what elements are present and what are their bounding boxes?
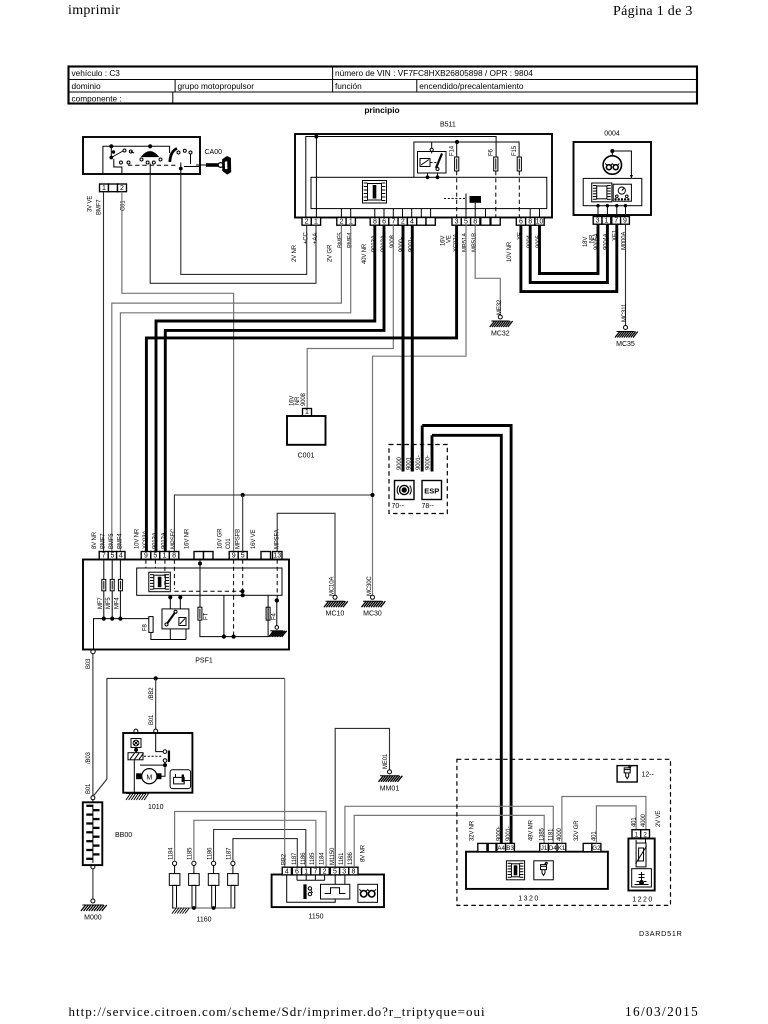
svg-text:1150: 1150	[308, 914, 323, 921]
svg-text:M000: M000	[84, 915, 102, 922]
svg-text:2: 2	[340, 219, 344, 226]
svg-text:1: 1	[305, 409, 309, 416]
svg-text:9000: 9000	[397, 456, 403, 470]
fuse F14	[455, 157, 459, 171]
ground MM01	[379, 770, 403, 792]
0004 pin row	[593, 217, 602, 225]
svg-text:MF5: MF5	[106, 597, 112, 609]
svg-text:Página 1 de 3: Página 1 de 3	[613, 4, 693, 19]
svg-text:1010: 1010	[148, 804, 164, 811]
wire 9000- from B511	[402, 225, 405, 471]
ignition switch CA00 box	[83, 137, 222, 174]
svg-text:FT: FT	[204, 612, 210, 620]
svg-text:5: 5	[464, 219, 468, 226]
wire 9012A	[165, 225, 384, 551]
svg-text:MPSFB: MPSFB	[236, 529, 242, 549]
svg-text:grupo motopropulsor: grupo motopropulsor	[178, 81, 255, 91]
1010 ground wire	[133, 759, 135, 792]
wires pins to MF fuses	[103, 560, 105, 580]
svg-text:MC311: MC311	[622, 303, 628, 322]
svg-text:8: 8	[172, 553, 176, 560]
CA00 internal bus wire	[103, 146, 170, 174]
svg-text:18V: 18V	[583, 237, 589, 247]
svg-text:401: 401	[631, 817, 637, 827]
PSF1 supply bus	[94, 619, 149, 650]
svg-text:9001-: 9001-	[506, 826, 512, 841]
svg-text:M000A: M000A	[621, 232, 627, 250]
svg-text:1187: 1187	[227, 847, 233, 860]
svg-text:9000-: 9000-	[496, 826, 502, 841]
B511 top bus wire	[306, 137, 496, 218]
wire 9005 to 9005A	[540, 225, 599, 274]
B511 pin row	[302, 218, 311, 226]
connector C01 pin row	[100, 184, 109, 192]
wire +CC	[181, 174, 307, 274]
svg-text:D4: D4	[549, 845, 557, 852]
wire 1187	[233, 839, 297, 868]
svg-text:1184: 1184	[168, 847, 174, 860]
svg-text:9000-: 9000-	[426, 455, 432, 470]
pressure switch in B511	[444, 194, 481, 209]
svg-text:32V NR: 32V NR	[470, 820, 476, 841]
svg-text:13: 13	[273, 553, 281, 560]
1010 spare terminal	[134, 729, 138, 733]
wire XE to XE1	[521, 225, 617, 292]
wire +AA	[150, 174, 316, 283]
svg-text:función: función	[335, 81, 362, 91]
svg-text:K1: K1	[558, 845, 566, 852]
ground M000	[81, 899, 107, 922]
dashed wire C01 internal	[233, 560, 235, 637]
1150 pin row	[282, 867, 291, 875]
dashed wire MPSFB internal	[242, 560, 244, 596]
0004 pin stubs	[597, 206, 599, 217]
wire MB51A to MC30	[373, 225, 467, 595]
dashed wire F14 to pin 3	[456, 171, 458, 218]
1320 pin row	[478, 843, 487, 851]
glow plug 1186	[207, 847, 219, 908]
1220 pin row	[632, 830, 641, 838]
ESP icon	[422, 481, 442, 500]
svg-text:G2: G2	[592, 845, 601, 852]
ground MC35	[615, 326, 638, 349]
svg-text:40V NR: 40V NR	[362, 243, 368, 264]
ESP dashed box	[389, 445, 447, 514]
svg-text:1: 1	[314, 219, 318, 226]
svg-text:3V VE: 3V VE	[88, 196, 94, 212]
wire XC03A	[146, 225, 456, 551]
svg-text:B01: B01	[149, 714, 155, 725]
CA00 mechanical link dashed	[128, 164, 176, 166]
wire 9001- to 1320	[422, 426, 511, 844]
svg-text:MC30C: MC30C	[367, 576, 373, 596]
1010 contactor	[144, 750, 170, 763]
thermistor in 1220	[636, 837, 647, 867]
svg-text:8: 8	[351, 868, 355, 875]
dashed wire F15 to pin 6	[518, 171, 520, 218]
svg-text:7: 7	[392, 219, 396, 226]
wire BMF4	[120, 225, 350, 551]
ABS icon	[395, 481, 415, 500]
svg-text:BB2: BB2	[281, 853, 287, 865]
svg-text:32V GR: 32V GR	[574, 820, 580, 841]
B511 relay feed wire	[414, 142, 519, 177]
IC symbol in PSF1	[149, 572, 171, 592]
svg-text:1: 1	[304, 868, 308, 875]
fuse FT	[198, 607, 210, 620]
svg-text:2: 2	[401, 219, 405, 226]
svg-text:BMF7: BMF7	[101, 533, 107, 549]
svg-text:1: 1	[349, 219, 353, 226]
svg-text:F8: F8	[142, 623, 148, 631]
wire 4000	[562, 797, 646, 844]
ground MC10	[324, 595, 348, 617]
svg-text:1186: 1186	[301, 852, 307, 865]
fuse box PSF1	[83, 560, 289, 665]
svg-text:3: 3	[342, 868, 346, 875]
glow plug ground	[172, 908, 212, 924]
svg-text:2V VE: 2V VE	[656, 811, 662, 827]
gauge symbol in 0004	[613, 184, 631, 201]
svg-text:principio: principio	[364, 105, 399, 115]
wire 1184	[175, 812, 327, 868]
svg-text:4: 4	[285, 868, 289, 875]
svg-text:MC30: MC30	[363, 611, 382, 618]
svg-text:16V GR: 16V GR	[218, 528, 224, 549]
svg-text:0004: 0004	[604, 131, 620, 138]
B511 inner box pin stubs	[340, 209, 342, 218]
svg-text:9013A: 9013A	[152, 532, 158, 549]
svg-text:/B03: /B03	[86, 751, 92, 764]
wire 9004 to 9004A	[530, 225, 607, 283]
svg-text:1: 1	[163, 553, 167, 560]
svg-text:10: 10	[536, 219, 544, 226]
svg-text:1181: 1181	[548, 828, 554, 841]
glow plug warning lamp	[603, 156, 621, 174]
svg-text:10V NR: 10V NR	[135, 528, 141, 549]
key symbol	[196, 157, 231, 174]
svg-text:B01: B01	[86, 783, 92, 794]
wire F8 to relay	[151, 632, 186, 639]
B511 inner equipment box	[311, 177, 547, 208]
glow plug 1185	[188, 847, 200, 908]
glow plug common wire	[175, 907, 233, 909]
svg-text:BMF7: BMF7	[97, 199, 103, 215]
fuse MF7	[102, 579, 106, 590]
wire B03 battery feed	[92, 654, 94, 796]
glow plug 1187	[227, 847, 239, 908]
wire MB51B to MC32	[475, 225, 500, 315]
svg-text:7: 7	[102, 553, 106, 560]
wire 9000- to 1320	[432, 435, 501, 843]
svg-text:16V VE: 16V VE	[251, 529, 257, 549]
svg-text:2: 2	[643, 831, 647, 838]
relay in PSF1	[162, 595, 189, 629]
svg-text:C001: C001	[298, 453, 315, 460]
wire 1386 to 1385	[354, 815, 544, 867]
svg-text:5: 5	[241, 553, 245, 560]
svg-text:MF7: MF7	[98, 597, 104, 609]
svg-text:2: 2	[305, 219, 309, 226]
svg-text:4000: 4000	[641, 813, 647, 827]
engine assembly dashed box	[457, 759, 671, 905]
svg-text:B511: B511	[440, 122, 456, 129]
svg-text:1386: 1386	[348, 851, 354, 865]
svg-text:imprimir: imprimir	[68, 3, 120, 18]
svg-text:dominio: dominio	[72, 81, 101, 91]
wire BMF7	[103, 192, 105, 552]
svg-text:9: 9	[144, 553, 148, 560]
svg-text:/BB2: /BB2	[149, 687, 155, 700]
svg-text:1160: 1160	[196, 917, 211, 924]
svg-text:5: 5	[110, 553, 114, 560]
fuse F8	[142, 617, 153, 633]
svg-text:F6: F6	[489, 148, 495, 156]
svg-text:6: 6	[295, 868, 299, 875]
svg-text:6: 6	[382, 219, 386, 226]
wire BMF5	[112, 225, 342, 551]
svg-text:número de VIN : VF7FC8HXB26805: número de VIN : VF7FC8HXB26805898 / OPR …	[335, 68, 533, 78]
svg-text:48V MR: 48V MR	[529, 819, 535, 841]
svg-text:9008: 9008	[301, 392, 307, 406]
CA00 contact set 1	[110, 146, 134, 174]
svg-text:B03: B03	[86, 658, 92, 669]
battery BB00	[83, 800, 132, 865]
svg-text:J1: J1	[541, 845, 548, 852]
svg-text:9012A: 9012A	[162, 532, 168, 549]
svg-text:F15: F15	[512, 145, 518, 156]
svg-text:http://service.citroen.com/sch: http://service.citroen.com/scheme/Sdr/im…	[69, 1004, 486, 1019]
svg-text:BMF4: BMF4	[117, 533, 123, 549]
svg-text:9: 9	[232, 553, 236, 560]
injector reference box 12	[617, 766, 655, 782]
svg-text:1186: 1186	[207, 847, 213, 860]
svg-text:encendido/precalentamiento: encendido/precalentamiento	[419, 81, 524, 91]
svg-text:BMF5: BMF5	[109, 533, 115, 549]
coolant temperature sensor 1220	[628, 839, 654, 904]
wire 1185	[194, 820, 316, 867]
svg-text:A4: A4	[497, 845, 505, 852]
svg-text:70--: 70--	[392, 503, 405, 510]
ESP wire stubs	[402, 445, 405, 472]
svg-text:MM01: MM01	[380, 785, 400, 792]
svg-text:1185: 1185	[188, 847, 194, 860]
svg-text:vehículo : C3: vehículo : C3	[72, 68, 121, 78]
wire 1161 to 1181	[345, 806, 553, 867]
1010 solenoid box	[170, 770, 191, 789]
wire 1186	[214, 830, 306, 868]
wire +AA internal	[315, 137, 317, 218]
svg-text:8: 8	[373, 219, 377, 226]
0004 internal wire	[611, 150, 633, 179]
svg-text:ME01: ME01	[383, 753, 389, 769]
svg-text:MF4: MF4	[114, 597, 120, 609]
svg-text:BB00: BB00	[115, 832, 132, 839]
svg-text:1184: 1184	[319, 852, 325, 865]
svg-text:8V NR: 8V NR	[92, 531, 98, 549]
CA00 contact set 3	[170, 149, 201, 175]
svg-text:1187: 1187	[292, 852, 298, 865]
battery positive terminal	[91, 796, 95, 800]
svg-text:2: 2	[323, 868, 327, 875]
svg-text:M: M	[146, 774, 152, 781]
svg-text:MC32: MC32	[491, 331, 510, 338]
PSF1 inner box	[137, 568, 282, 595]
svg-text:7: 7	[313, 868, 317, 875]
svg-text:ME32: ME32	[497, 299, 503, 315]
1010 motor	[136, 762, 166, 784]
pre-post heating unit 1150	[272, 875, 384, 921]
svg-text:VE: VE	[447, 235, 453, 243]
svg-text:5: 5	[153, 553, 157, 560]
svg-text:1: 1	[102, 185, 106, 192]
svg-text:XC03A: XC03A	[143, 531, 149, 549]
ground MC32	[490, 315, 513, 338]
wire FT to F4 bottom link	[200, 595, 268, 636]
svg-text:7: 7	[614, 218, 618, 225]
wire blank pin to FT	[199, 560, 201, 608]
svg-text:1: 1	[635, 831, 639, 838]
svg-text:D3ARD51R: D3ARD51R	[639, 929, 683, 938]
svg-text:PSF1: PSF1	[195, 658, 213, 665]
wire branch to starter	[94, 678, 285, 795]
wire C01	[122, 192, 234, 552]
svg-text:1385: 1385	[539, 827, 545, 841]
svg-text:16/03/2015: 16/03/2015	[625, 1004, 699, 1019]
svg-text:9001: 9001	[407, 456, 413, 470]
svg-text:2V NR: 2V NR	[292, 244, 298, 262]
fuse F6	[494, 157, 498, 171]
engine ECU 1320	[466, 852, 608, 903]
connector unit C001	[287, 416, 326, 460]
svg-text:78--: 78--	[422, 503, 435, 510]
1010 case ground	[126, 794, 149, 801]
fuse F4	[266, 607, 277, 620]
1150 internals	[287, 875, 378, 903]
wire MPSFC MPSFB to MC30 node	[174, 495, 372, 552]
wire 401	[596, 806, 636, 844]
wire MPSFB riser	[242, 495, 244, 552]
svg-text:9001-: 9001-	[416, 455, 422, 470]
svg-text:ESP: ESP	[424, 486, 439, 495]
ground MC30	[362, 595, 386, 617]
svg-text:MC35: MC35	[616, 341, 635, 348]
CA00 contact set 2	[140, 152, 162, 174]
svg-text:B3: B3	[506, 845, 514, 852]
svg-text:CA00: CA00	[205, 149, 223, 156]
fuse MF4	[118, 579, 122, 590]
header table	[69, 67, 698, 104]
svg-text:8V NR: 8V NR	[361, 844, 367, 862]
svg-text:componente :: componente :	[72, 94, 122, 104]
svg-text:1220: 1220	[632, 897, 654, 904]
svg-text:1185: 1185	[310, 852, 316, 865]
svg-text:2: 2	[120, 185, 124, 192]
svg-text:9: 9	[623, 218, 627, 225]
svg-text:4: 4	[119, 553, 123, 560]
0004 inner box	[583, 178, 642, 205]
battery negative terminal	[91, 865, 95, 869]
PSF1 pin row	[99, 552, 108, 560]
svg-text:2V GR: 2V GR	[327, 244, 333, 262]
IC symbol in 1320	[506, 861, 524, 880]
svg-text:16V NR: 16V NR	[185, 528, 191, 549]
starter motor unit 1010	[123, 733, 192, 811]
dashed wire MPSFA internal	[276, 560, 278, 601]
injector symbol in 1320	[534, 861, 554, 880]
1010 relay coil	[128, 748, 144, 760]
wire M000A to MC35	[625, 225, 627, 326]
glow plug 1184	[168, 847, 180, 908]
svg-text:16V: 16V	[441, 236, 447, 246]
1010 B01 internal wire	[156, 733, 164, 752]
wire BB2 to 1150	[284, 678, 286, 867]
svg-text:MC10A: MC10A	[330, 577, 336, 596]
dashed wire F6 to pin	[495, 171, 497, 218]
IC symbol in B511	[363, 181, 387, 204]
svg-text:C01: C01	[226, 538, 232, 549]
relay in B511	[418, 142, 447, 179]
PSF1 dashed pin links	[145, 560, 147, 569]
BSI unit B511 box	[295, 122, 552, 218]
svg-text:F14: F14	[450, 145, 456, 156]
fuse MF5	[110, 579, 114, 590]
svg-text:3: 3	[455, 219, 459, 226]
svg-text:MC10: MC10	[326, 611, 345, 618]
svg-text:12--: 12--	[642, 772, 655, 779]
1010 exciter box	[131, 739, 141, 748]
svg-text:8: 8	[473, 219, 477, 226]
thermometer in 1220	[632, 869, 652, 887]
wire M1150 to MM01	[335, 728, 389, 867]
fuse F15	[517, 157, 521, 171]
svg-text:1: 1	[604, 218, 608, 225]
wire 9013A	[156, 225, 375, 551]
B03 terminal circle	[91, 649, 95, 653]
svg-text:4: 4	[410, 219, 414, 226]
svg-text:8: 8	[528, 219, 532, 226]
svg-text:6: 6	[519, 219, 523, 226]
wire MPSFA to MC10	[277, 513, 335, 595]
svg-text:10V NR: 10V NR	[507, 241, 513, 262]
svg-text:3: 3	[596, 218, 600, 225]
instrument cluster 0004 box	[574, 131, 652, 216]
svg-text:5: 5	[333, 868, 337, 875]
svg-text:1320: 1320	[518, 896, 540, 903]
wire B01 to starter 1010	[155, 678, 157, 729]
wire battery to ground M000	[92, 869, 94, 899]
PSF1 internal ground	[269, 599, 287, 637]
C001 pin 1	[303, 409, 312, 416]
IC symbol in 0004	[592, 183, 612, 202]
svg-text:1161: 1161	[339, 852, 345, 865]
wire 9008	[307, 225, 393, 408]
wire 9001- from B511	[411, 225, 414, 471]
